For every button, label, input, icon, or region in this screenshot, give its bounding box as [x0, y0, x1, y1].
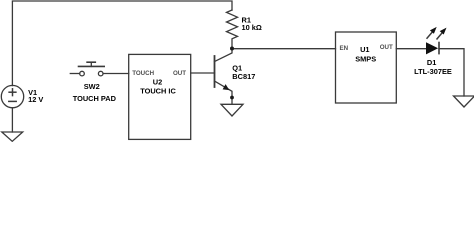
transistor Q1 base bar	[214, 56, 216, 87]
emitter arrowhead	[223, 84, 230, 90]
svg-text:12 V: 12 V	[28, 95, 43, 104]
svg-text:SW2: SW2	[84, 82, 100, 91]
resistor R1	[227, 10, 238, 49]
ground (emitter)	[221, 104, 243, 116]
LED D1 cathode bar	[438, 43, 440, 54]
voltage source V1	[1, 85, 23, 107]
svg-text:U1: U1	[360, 45, 369, 54]
node junction below R1	[230, 47, 234, 51]
wire node to U1 EN	[232, 48, 336, 50]
IC U1 box	[336, 32, 397, 103]
IC U2 box	[129, 54, 191, 139]
V1 minus sign	[9, 100, 16, 102]
svg-text:EN: EN	[340, 45, 349, 52]
svg-text:10 kΩ: 10 kΩ	[242, 23, 262, 32]
svg-text:TOUCH IC: TOUCH IC	[140, 87, 176, 96]
LED D1	[427, 43, 438, 54]
wire U1 OUT to D1	[396, 48, 426, 50]
wire V1 to ground	[11, 108, 13, 132]
svg-text:Q1: Q1	[232, 63, 242, 72]
V1 plus sign	[9, 89, 16, 102]
svg-text:SMPS: SMPS	[355, 54, 376, 63]
wire top rail	[12, 1, 232, 86]
LED arrow 2	[437, 28, 447, 39]
wire base from U2 OUT	[191, 72, 215, 74]
LED arrow 1	[427, 27, 437, 38]
svg-text:U2: U2	[153, 77, 162, 86]
svg-text:TOUCH PAD: TOUCH PAD	[73, 94, 117, 103]
wire emitter	[215, 81, 233, 104]
svg-text:BC817: BC817	[232, 72, 255, 81]
node junction emitter	[230, 96, 234, 100]
wire collector	[215, 49, 233, 62]
ground (right)	[454, 96, 474, 107]
svg-text:OUT: OUT	[173, 70, 186, 77]
svg-text:OUT: OUT	[380, 44, 393, 51]
svg-text:LTL-307EE: LTL-307EE	[414, 67, 452, 76]
switch SW2	[70, 62, 128, 76]
ground (V1)	[2, 132, 23, 141]
svg-text:D1: D1	[427, 58, 436, 67]
wire D1 to ground	[439, 49, 464, 96]
svg-text:TOUCH: TOUCH	[132, 70, 154, 77]
